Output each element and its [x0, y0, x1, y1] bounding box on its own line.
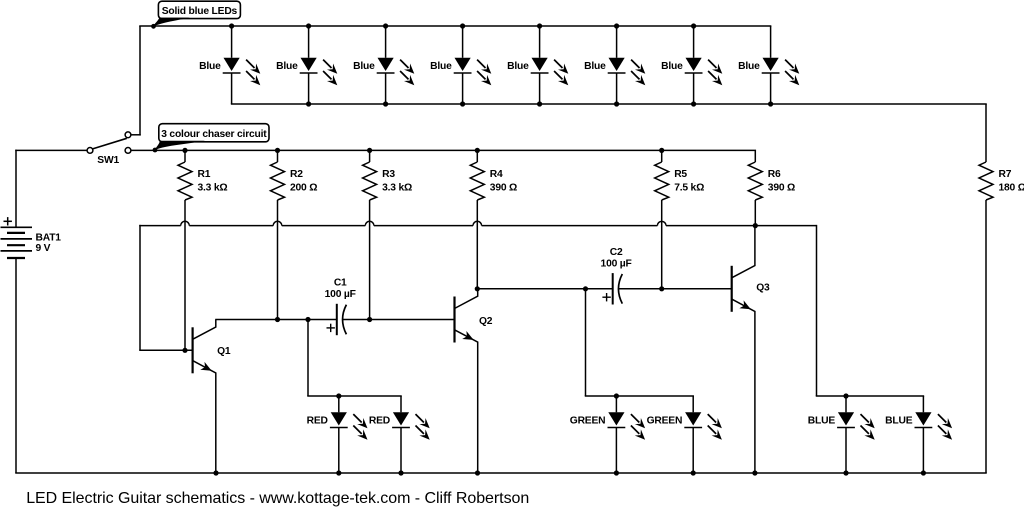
svg-text:R1: R1: [198, 169, 211, 180]
svg-text:R7: R7: [999, 169, 1012, 180]
svg-text:BAT1: BAT1: [36, 233, 62, 244]
svg-text:Q3: Q3: [756, 282, 770, 293]
svg-text:Blue: Blue: [584, 61, 606, 72]
svg-text:BLUE: BLUE: [808, 416, 836, 427]
svg-text:Q2: Q2: [479, 316, 493, 327]
svg-text:R4: R4: [490, 169, 503, 180]
svg-text:Q1: Q1: [217, 346, 231, 357]
svg-text:R2: R2: [290, 169, 303, 180]
svg-text:GREEN: GREEN: [570, 416, 606, 427]
svg-text:Solid blue LEDs: Solid blue LEDs: [162, 6, 238, 17]
svg-text:SW1: SW1: [97, 155, 119, 166]
svg-text:R6: R6: [768, 169, 781, 180]
svg-text:9 V: 9 V: [36, 243, 51, 254]
svg-text:100 µF: 100 µF: [325, 289, 356, 300]
svg-text:200 Ω: 200 Ω: [290, 183, 317, 194]
svg-text:3.3 kΩ: 3.3 kΩ: [198, 183, 228, 194]
svg-text:3.3 kΩ: 3.3 kΩ: [382, 183, 412, 194]
svg-text:Blue: Blue: [430, 61, 452, 72]
svg-text:GREEN: GREEN: [647, 416, 683, 427]
svg-text:R5: R5: [674, 169, 687, 180]
svg-text:3 colour chaser circuit: 3 colour chaser circuit: [161, 129, 267, 140]
svg-text:Blue: Blue: [276, 61, 298, 72]
svg-text:100 µF: 100 µF: [601, 258, 632, 269]
svg-text:180 Ω: 180 Ω: [999, 183, 1024, 194]
svg-text:Blue: Blue: [353, 61, 375, 72]
svg-text:C1: C1: [334, 278, 347, 289]
svg-text:R3: R3: [382, 169, 395, 180]
svg-text:Blue: Blue: [507, 61, 529, 72]
svg-text:390 Ω: 390 Ω: [490, 183, 517, 194]
svg-text:RED: RED: [307, 416, 328, 427]
svg-text:Blue: Blue: [738, 61, 760, 72]
svg-text:LED Electric Guitar schematics: LED Electric Guitar schematics - www.kot…: [26, 490, 529, 507]
svg-text:7.5 kΩ: 7.5 kΩ: [674, 183, 704, 194]
svg-text:Blue: Blue: [199, 61, 221, 72]
svg-text:C2: C2: [610, 247, 623, 258]
svg-text:390 Ω: 390 Ω: [768, 183, 795, 194]
svg-text:BLUE: BLUE: [885, 416, 913, 427]
svg-text:Blue: Blue: [661, 61, 683, 72]
svg-text:RED: RED: [369, 416, 390, 427]
